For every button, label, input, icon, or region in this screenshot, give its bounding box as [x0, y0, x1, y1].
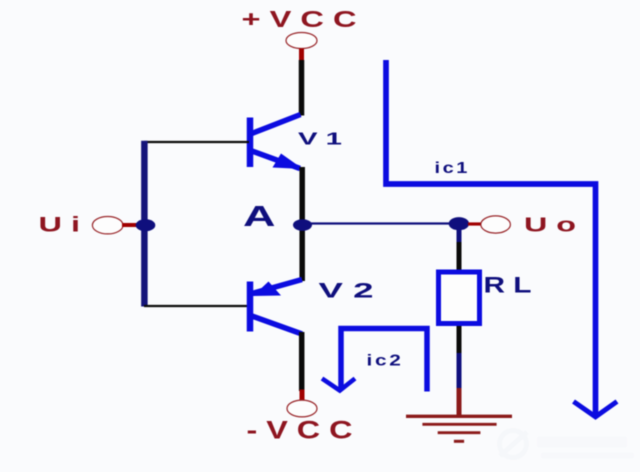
- svg-text:U o: U o: [524, 215, 576, 237]
- node A junction dot: [293, 219, 312, 231]
- wire red stub Ui: [122, 223, 138, 227]
- svg-text:ic1: ic1: [435, 160, 471, 177]
- svg-text:- V C C: - V C C: [247, 417, 353, 445]
- wire base V1 horizontal: [144, 141, 249, 143]
- wire red stub below +VCC terminal: [299, 49, 304, 62]
- transistor V2 base bar: [247, 282, 254, 332]
- wire left input vertical: [141, 141, 148, 307]
- transistor V2 collector stroke: [251, 316, 303, 335]
- transistor V1 emitter arrow: [273, 154, 304, 170]
- ground line 1: [406, 415, 512, 418]
- wire collector V1 vertical: [299, 60, 305, 116]
- svg-text:+ V C C: + V C C: [242, 6, 357, 32]
- svg-text:ic2: ic2: [367, 353, 404, 370]
- terminal +VCC: [286, 33, 317, 49]
- arrow ic2 head: [322, 379, 355, 391]
- wire Uo down black segment: [457, 242, 462, 271]
- watermark ghost logo: [500, 431, 635, 459]
- svg-text:V 1: V 1: [298, 129, 342, 149]
- wire below RL navy segment: [457, 353, 462, 389]
- wire main vertical V1 emitter to V2 emitter: [299, 167, 305, 281]
- svg-text:A: A: [243, 201, 276, 233]
- svg-text:V 2: V 2: [319, 279, 374, 303]
- wire below RL black segment: [457, 326, 462, 354]
- svg-text:R L: R L: [484, 273, 532, 298]
- wire ic1 bracket: [386, 60, 596, 415]
- node Ui junction dot: [136, 219, 156, 231]
- resistor RL: [439, 272, 480, 324]
- terminal Ui: [92, 217, 123, 234]
- transistor V1 emitter stroke: [251, 151, 301, 169]
- arrow ic1 head: [574, 402, 618, 417]
- wire Uo down navy segment: [457, 228, 462, 243]
- wire ic2 bracket: [341, 329, 427, 392]
- ground line 3: [438, 431, 481, 434]
- transistor V1 base bar: [247, 118, 254, 168]
- terminal Uo: [481, 216, 511, 233]
- wire V2 collector down: [299, 332, 305, 391]
- node Uo junction dot: [449, 217, 469, 230]
- ground line 4: [454, 440, 464, 443]
- transistor V2 emitter arrow: [253, 282, 281, 297]
- wire base V2 horizontal: [144, 305, 249, 307]
- transistor V1 collector stroke: [251, 115, 301, 135]
- wire node A to Uo: [303, 222, 455, 224]
- transistor V2 emitter stroke: [252, 280, 302, 294]
- wire below RL red segment: [457, 388, 462, 416]
- wire red stub above -VCC terminal: [300, 390, 305, 401]
- svg-text:U i: U i: [39, 214, 81, 237]
- ground line 2: [422, 423, 496, 426]
- wire red stub Uo: [468, 222, 481, 225]
- terminal -VCC: [287, 400, 317, 417]
